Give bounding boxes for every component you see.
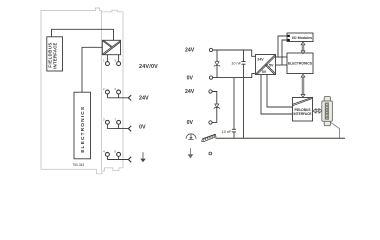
svg-text:0V: 0V	[187, 75, 194, 81]
svg-text:ELECTRONICS: ELECTRONICS	[288, 62, 313, 66]
svg-text:24V: 24V	[139, 96, 149, 102]
svg-text:3: 3	[103, 117, 105, 121]
svg-text:5V: 5V	[262, 70, 267, 74]
svg-text:ELECTRONICS: ELECTRONICS	[80, 106, 86, 153]
svg-text:5: 5	[115, 59, 117, 63]
svg-text:0V: 0V	[139, 124, 146, 130]
svg-text:8: 8	[115, 149, 117, 153]
svg-text:6: 6	[115, 87, 117, 91]
svg-text:24V: 24V	[257, 57, 264, 61]
svg-text:10 nF: 10 nF	[222, 130, 232, 134]
svg-text:I/O Modules: I/O Modules	[292, 36, 312, 40]
svg-text:750-343: 750-343	[73, 163, 85, 167]
svg-text:INTERFACE: INTERFACE	[293, 112, 311, 116]
svg-text:1: 1	[103, 59, 105, 63]
svg-text:5V: 5V	[269, 64, 274, 68]
svg-text:24V: 24V	[185, 48, 195, 54]
svg-text:7: 7	[115, 117, 117, 121]
svg-text:24V/0V: 24V/0V	[139, 64, 158, 70]
svg-text:0V: 0V	[187, 120, 194, 126]
svg-text:4: 4	[103, 149, 105, 153]
svg-text:10 nF: 10 nF	[231, 62, 241, 66]
svg-text:24V: 24V	[185, 89, 195, 95]
svg-text:INTERFACE: INTERFACE	[52, 42, 57, 68]
svg-text:2: 2	[103, 87, 105, 91]
